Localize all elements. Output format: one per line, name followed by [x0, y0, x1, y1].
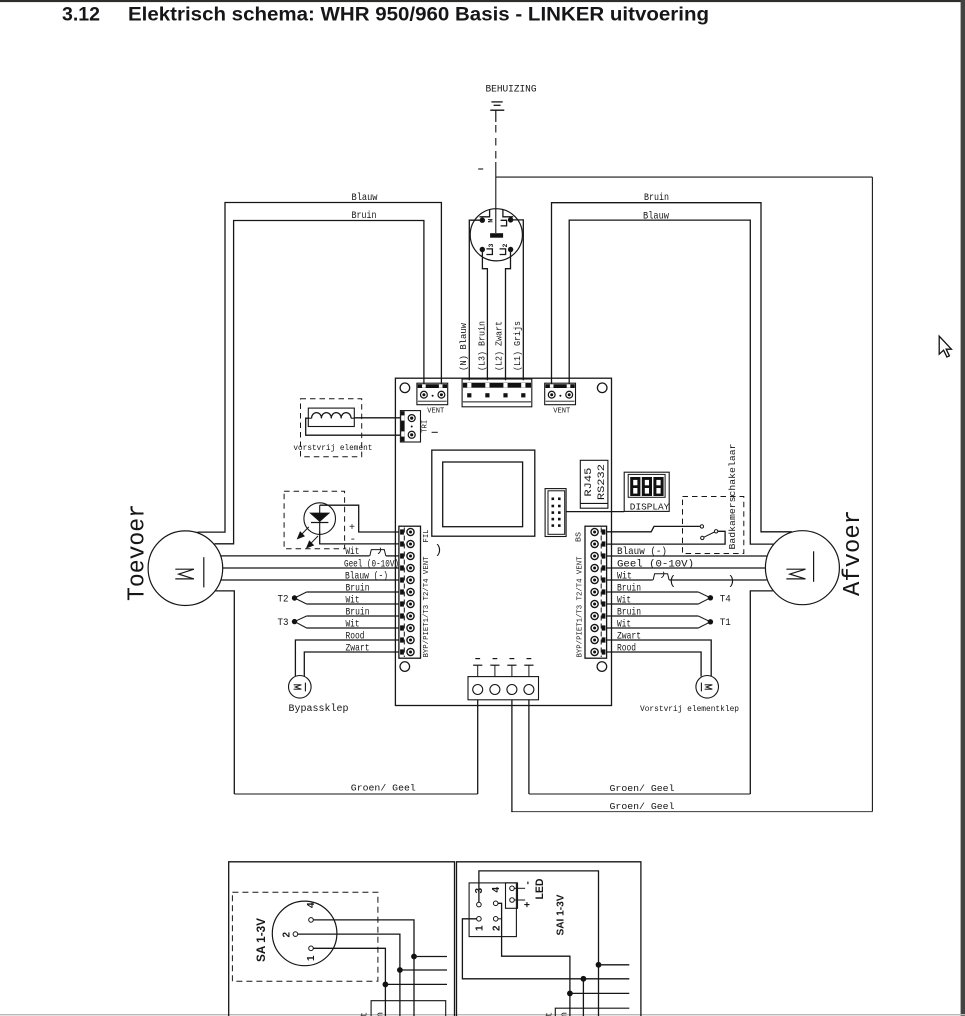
svg-text:SA 1-3V: SA 1-3V	[254, 918, 268, 962]
wire SA pin1	[313, 948, 385, 1016]
wire Bruin left loop	[215, 221, 424, 544]
page bottom scan line	[0, 1014, 965, 1015]
wire Geel left	[223, 567, 399, 569]
sensor T3	[278, 616, 307, 629]
wire earth pin4 down	[528, 700, 530, 794]
svg-text:Bruin: Bruin	[560, 1012, 570, 1016]
wire Zwart to bypass valve	[304, 652, 399, 676]
label fragment (SAI right)	[560, 1012, 570, 1016]
label (L2) Zwart	[495, 321, 505, 371]
svg-text:T3: T3	[278, 618, 289, 629]
page right border	[961, 0, 965, 1016]
label fragment (SAI left)	[545, 1012, 555, 1016]
label RS232	[597, 464, 608, 500]
label Wit (T4 right)	[617, 594, 631, 606]
LED D1 symbol	[311, 505, 329, 531]
junction dot SA pin2	[397, 967, 403, 973]
label fragment Wit (SA)	[360, 1012, 370, 1016]
wire Blauw left	[221, 579, 399, 581]
svg-text:(L1) Grijs: (L1) Grijs	[513, 321, 523, 371]
wire Wit left with jumper	[221, 548, 399, 556]
label Zwart (right)	[617, 631, 641, 642]
badkamerschakelaar dashed box	[683, 497, 744, 554]
junction dot SAI pin4	[567, 991, 573, 997]
wire SA pin4	[313, 920, 414, 1016]
label VENT left	[427, 408, 444, 416]
PCB mounting hole bottom-left	[400, 662, 410, 672]
wire Wit T1 right	[607, 627, 699, 629]
label Badkamerschakelaar	[727, 444, 738, 550]
label Bruin (left loop)	[352, 210, 377, 222]
wire earth pin3 down	[511, 700, 513, 812]
svg-text:3: 3	[488, 244, 495, 248]
wire heater to TRI pin1	[354, 417, 400, 419]
label Wit (T2 left)	[346, 594, 360, 606]
SA box outline	[229, 862, 455, 1016]
mains plug pin L2	[500, 244, 514, 255]
heater element R1 coil	[308, 413, 354, 419]
svg-text:RS232: RS232	[597, 464, 608, 500]
RJ45/RS232 module box	[580, 460, 608, 508]
mains plug pin L3	[480, 244, 496, 255]
junction dot SAI pin3	[596, 962, 602, 968]
wire Bruin T2 left	[307, 591, 399, 593]
SAI pin 1	[475, 917, 486, 932]
stub SA pin4	[414, 956, 447, 958]
heater element R1 box	[308, 408, 354, 426]
mouse cursor	[939, 336, 951, 357]
label Groen/ Geel (right)	[610, 783, 675, 794]
svg-text:vorstvrij element: vorstvrij element	[293, 443, 372, 453]
label Rood (left)	[346, 630, 365, 642]
label Vorstvrij elementklep	[640, 704, 739, 714]
svg-text:RJ45: RJ45	[584, 468, 595, 497]
svg-text:Blauw: Blauw	[643, 211, 670, 223]
label Bruin (T2 left)	[346, 582, 370, 594]
svg-text:Afvoer: Afvoer	[840, 510, 867, 596]
mains terminal block outline	[462, 379, 532, 407]
label Wit (T1 right)	[617, 618, 631, 630]
SAI connector box	[469, 883, 516, 937]
SAI pin 2	[491, 917, 502, 932]
wire Blauw right	[607, 555, 767, 557]
svg-text:Groen/ Geel: Groen/ Geel	[610, 801, 675, 812]
svg-text:DISPLAY: DISPLAY	[630, 501, 670, 512]
wire SAI pin2 stub	[498, 918, 502, 920]
svg-text:-: -	[523, 881, 534, 884]
PCB mounting hole top-right	[597, 383, 607, 393]
label Zwart (left)	[346, 643, 370, 654]
heading section number 3.12	[62, 3, 100, 25]
wire SA pin2	[298, 934, 400, 1016]
junction dot SA pin1	[383, 982, 389, 988]
svg-text:(: (	[669, 574, 677, 589]
SA bottom connector box	[371, 1001, 446, 1016]
label Afvoer	[840, 510, 867, 596]
connector BS header	[545, 489, 566, 537]
transformer T1 inner	[443, 462, 523, 527]
svg-text:-: -	[350, 534, 357, 546]
LED pin -	[510, 881, 534, 890]
wire Wit right with jumper	[607, 572, 767, 580]
connector TRI	[400, 411, 420, 442]
label Groen/ Geel (outer bottom)	[610, 801, 675, 812]
svg-text:Groen/ Geel: Groen/ Geel	[610, 783, 675, 794]
svg-text:BYP/PIET1/T3 T2/T4 VENT: BYP/PIET1/T3 T2/T4 VENT	[423, 557, 431, 658]
wire node to outer ground loop	[496, 176, 873, 178]
svg-text:TRI: TRI	[422, 420, 430, 433]
label (L3) Bruin	[477, 321, 487, 371]
label BS	[576, 532, 584, 542]
switch S1 arm	[701, 530, 718, 540]
label Groen/ Geel (left)	[351, 783, 416, 794]
svg-text:BYP/PIET1/T3 T2/T4 VENT: BYP/PIET1/T3 T2/T4 VENT	[577, 557, 585, 658]
svg-text:Vorstvrij elementklep: Vorstvrij elementklep	[640, 704, 739, 714]
svg-text:2: 2	[281, 932, 292, 938]
mains terminal pin slots	[467, 383, 525, 388]
svg-text:N: N	[488, 219, 495, 223]
PCB mounting hole bottom-right	[597, 662, 607, 672]
mains plug key notches	[480, 210, 514, 217]
stub SA pin1	[385, 983, 447, 985]
wire (L3) Bruin	[482, 250, 487, 381]
stub SAI pin3	[599, 964, 630, 966]
wire Rood to bypass valve	[295, 640, 399, 676]
label Bruin (right loop)	[644, 192, 669, 204]
SA pin 4	[306, 902, 317, 922]
svg-text:Toevoer: Toevoer	[125, 504, 152, 601]
label TRI	[422, 420, 438, 433]
label Bruin (T3 left)	[346, 606, 370, 618]
wire Zwart to frost valve	[607, 640, 712, 676]
mains plug X13 circle	[470, 209, 522, 261]
label DISPLAY	[630, 501, 670, 512]
label SAI 1-3V	[555, 895, 567, 936]
svg-text:(L2) Zwart: (L2) Zwart	[495, 321, 505, 371]
connector VENT left	[417, 383, 448, 405]
svg-text:Wit: Wit	[545, 1012, 555, 1016]
label SA 1-3V	[254, 918, 268, 962]
mains terminal black band	[463, 383, 531, 388]
svg-text:T2: T2	[278, 595, 289, 606]
label Bruin (T1 right)	[617, 606, 641, 618]
sensor T4	[698, 592, 731, 606]
label Geel (0-10V) (right)	[617, 558, 694, 570]
SA dashed box	[232, 892, 378, 981]
label Toevoer	[125, 504, 152, 601]
label + (FIL)	[349, 523, 355, 534]
connector VENT right	[545, 383, 576, 405]
label Wit (left VENT)	[345, 546, 359, 558]
dash-dot wire to earth	[478, 125, 496, 169]
wire Groen/Geel left	[234, 793, 477, 795]
wire Toevoer motor to Groen/Geel	[215, 591, 234, 794]
bypass valve	[289, 676, 312, 699]
svg-text:T4: T4	[720, 595, 731, 606]
earth symbol BEHUIZING	[490, 102, 504, 122]
wire outer ground loop bottom	[511, 811, 872, 813]
transformer T1 outer	[432, 450, 535, 536]
wire Blauw left loop	[198, 203, 442, 533]
wire header to display	[566, 511, 624, 513]
wire Wit T2 left	[307, 603, 399, 605]
svg-text:): )	[728, 574, 736, 589]
wire earth to mains connector	[495, 162, 497, 233]
svg-text:2: 2	[502, 244, 509, 248]
svg-text:T1: T1	[720, 618, 731, 629]
label Bruin (T4 right)	[617, 582, 641, 594]
mains terminal bottom line	[463, 401, 531, 403]
wire LED anode to FIL+	[320, 505, 399, 532]
svg-text:1: 1	[306, 955, 317, 961]
svg-text:Groen/ Geel: Groen/ Geel	[351, 783, 416, 794]
label Bypassklep	[289, 703, 349, 715]
LED emission arrows	[297, 527, 318, 548]
mains plug pin N	[480, 218, 495, 223]
wire Bruin T3 left	[307, 615, 399, 617]
svg-text:BEHUIZING: BEHUIZING	[486, 84, 537, 95]
label LED	[534, 878, 546, 899]
SAI pin 4	[491, 887, 502, 906]
wire (N) Blauw	[469, 220, 482, 380]
svg-text:): )	[435, 543, 443, 558]
mains terminal screw squares	[467, 393, 525, 397]
LED pin +	[510, 898, 534, 908]
label ( ) on Wit right	[669, 574, 736, 589]
page top border	[0, 0, 965, 2]
svg-text:FIL: FIL	[423, 530, 431, 543]
wire heater to TRI pin2	[306, 418, 401, 435]
LED sensor dashed box	[284, 491, 345, 549]
sensor T2	[278, 592, 307, 606]
wire Blauw right loop	[569, 220, 773, 544]
label Blauw (left loop)	[352, 192, 379, 204]
label ) stray (left)	[435, 543, 443, 558]
frost element valve	[696, 676, 719, 699]
SA pin 2	[281, 932, 297, 938]
SAI box outline	[457, 862, 641, 1016]
terminal strip left (FIL/VENT/T/BYP)	[399, 526, 421, 658]
stub SA pin2	[400, 969, 447, 971]
motor M Afvoer	[765, 531, 839, 605]
label fragment Bruin (SA)	[376, 1012, 386, 1016]
sensor T1	[698, 616, 731, 629]
earth symbols above terminal	[473, 659, 533, 677]
wire BS pin1 to switch	[607, 526, 700, 531]
wire SAI down from dot	[582, 979, 584, 1016]
label RJ45	[584, 468, 595, 497]
svg-text:Badkamerschakelaar: Badkamerschakelaar	[727, 444, 738, 550]
svg-text:LED: LED	[534, 878, 546, 899]
label right strip groups BYP/PIE T1/T3 T2/T4 VENT	[577, 557, 585, 658]
PCB outline	[395, 378, 611, 705]
svg-text:+: +	[523, 902, 534, 908]
label VENT right	[553, 408, 570, 416]
label Geel (0-10V) (left)	[344, 558, 399, 570]
wire Groen/Geel right	[529, 793, 750, 795]
label (L1) Grijs	[513, 321, 523, 371]
wire Wit T3 left	[307, 627, 399, 629]
wire LED cathode to FIL-	[320, 531, 399, 544]
wire Bruin T4 right	[607, 591, 699, 593]
label Blauw (-) (left)	[345, 570, 388, 582]
vorstvrij element dashed box	[301, 399, 362, 457]
PCB mounting hole top-left	[400, 383, 410, 393]
motor M Toevoer	[148, 531, 223, 606]
svg-text:(N) Blauw: (N) Blauw	[459, 322, 469, 371]
junction dot SAI pin1	[581, 976, 587, 982]
wire SAI pin4/2	[496, 903, 570, 1016]
svg-text:+: +	[349, 523, 355, 534]
label left strip groups BYP/PIE T1/T3 T2/T4 VENT	[423, 557, 431, 658]
SAI pin 3	[474, 888, 485, 907]
mains plug center key	[490, 233, 503, 238]
label FIL	[423, 530, 431, 543]
stub SAI pin4	[570, 992, 629, 994]
svg-text:Elektrisch schema: WHR 950/960: Elektrisch schema: WHR 950/960 Basis - L…	[128, 3, 709, 25]
svg-text:SAI 1-3V: SAI 1-3V	[555, 895, 567, 936]
label Wit (right VENT)	[617, 570, 632, 582]
wire earth pin1 down	[477, 700, 479, 794]
label (N) Blauw	[459, 322, 469, 371]
SA connector circle	[272, 901, 337, 966]
label - (FIL)	[350, 534, 357, 546]
svg-text:VENT: VENT	[427, 408, 444, 416]
label vorstvrij element	[293, 443, 372, 453]
svg-text:1: 1	[475, 925, 486, 931]
earth terminal block	[468, 677, 539, 700]
svg-text:Bruin: Bruin	[376, 1012, 386, 1016]
wire Geel right	[607, 567, 765, 569]
svg-text:VENT: VENT	[553, 408, 570, 416]
wire Afvoer motor to Groen/Geel	[750, 591, 773, 794]
wire (L1) Grijs	[511, 220, 524, 380]
wire Wit T4 right	[607, 603, 699, 605]
svg-text:4: 4	[306, 902, 317, 908]
svg-text:BS: BS	[576, 532, 584, 542]
label BEHUIZING	[486, 84, 537, 95]
wire Rood to frost valve	[607, 652, 702, 677]
junction dot SA pin4	[411, 954, 417, 960]
svg-text:Wit: Wit	[360, 1012, 370, 1016]
wire (L2) Zwart	[506, 250, 511, 381]
svg-text:(L3) Bruin: (L3) Bruin	[477, 321, 487, 371]
wire Bruin right loop	[552, 203, 792, 532]
wire Bruin T1 right	[607, 615, 699, 617]
label Wit (T3 left)	[346, 618, 360, 630]
heading title	[128, 3, 709, 25]
SA pin 1	[306, 946, 317, 961]
wire switch to BS pin2	[607, 531, 726, 544]
SAI bottom wire	[555, 1008, 629, 1016]
mains plug pin L1	[501, 217, 514, 226]
label Rood (right)	[617, 642, 636, 654]
display module	[624, 472, 669, 511]
switch S1 contact a	[700, 525, 703, 528]
label Blauw (-) (right)	[617, 546, 667, 558]
wire SAI pin3	[479, 871, 599, 1016]
svg-text:Bypassklep: Bypassklep	[289, 703, 349, 715]
wire SAI pin1	[462, 919, 629, 979]
svg-text:4: 4	[491, 887, 502, 893]
LED sensor circle	[304, 503, 336, 535]
terminal strip right (BS/VENT/T/BYP)	[585, 526, 607, 658]
LED connector box	[506, 883, 518, 908]
svg-text:2: 2	[491, 925, 502, 931]
wire outer ground loop right vertical	[871, 177, 873, 812]
label Blauw (right loop)	[643, 211, 670, 223]
svg-text:3.12: 3.12	[62, 3, 100, 25]
